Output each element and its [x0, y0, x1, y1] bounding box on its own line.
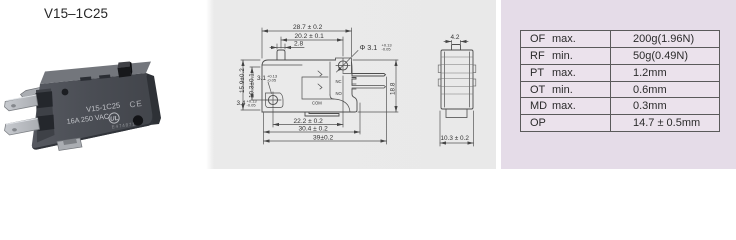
molding slot lower: [37, 115, 54, 131]
arrowheads 30.4: [264, 130, 361, 133]
svg-text:3.4: 3.4: [237, 100, 246, 107]
extension line body right top: [351, 28, 353, 56]
mounting hole top-right: [338, 61, 347, 70]
svg-text:3.1: 3.1: [257, 75, 266, 82]
svg-text:-0.05: -0.05: [247, 103, 257, 108]
terminal blade hidden: [21, 87, 44, 99]
extension line plunger center: [280, 37, 282, 48]
dim line 22.2: [273, 124, 343, 126]
pink table panel: [501, 0, 736, 169]
internal cavity: [302, 77, 334, 99]
bottom COM terminal: [305, 112, 339, 116]
mounting hole dot right: [133, 115, 143, 125]
arrowhead leader 3.1: [338, 67, 343, 71]
leader dia 3.1: [337, 51, 359, 73]
svg-text:28.7 ± 0.2: 28.7 ± 0.2: [293, 24, 323, 31]
arrowheads 10.3 left: [250, 67, 253, 100]
arrowheads 15.9: [241, 60, 244, 110]
end view tab right 1: [473, 65, 476, 73]
svg-text:15.9±0.2: 15.9±0.2: [239, 68, 246, 93]
title V15-1C25: [44, 6, 108, 21]
svg-text:20.2 ± 0.1: 20.2 ± 0.1: [295, 33, 325, 40]
body bottom shade: [32, 115, 153, 150]
dim line 28.7: [262, 30, 352, 32]
svg-text:UL: UL: [110, 115, 119, 123]
end view dim 10.3 extensions: [440, 111, 474, 146]
terminal right 2: [352, 84, 386, 89]
svg-text:COM: COM: [312, 101, 322, 106]
marking UL logo: [108, 112, 119, 123]
arrowheads 39: [264, 139, 387, 142]
mounting hole dot left: [62, 89, 69, 96]
extension lines plunger edges: [277, 44, 285, 49]
extension line 30.4 right: [359, 103, 361, 134]
svg-text:10.3 ± 0.2: 10.3 ± 0.2: [441, 135, 470, 142]
plunger side view: [277, 50, 285, 60]
extension line body left down: [263, 113, 265, 144]
contact mark NO: [318, 84, 322, 89]
technical drawing: [236, 0, 500, 172]
arrowheads 20.2: [281, 38, 343, 41]
extension lines 18.8: [353, 60, 398, 112]
mounting hole bottom-left: [268, 95, 277, 104]
top slot 2: [99, 75, 111, 79]
svg-text:39±0.2: 39±0.2: [313, 135, 333, 142]
svg-text:18.8: 18.8: [390, 82, 397, 95]
end view inner walls: [445, 52, 470, 107]
internal bottom-right curve: [330, 95, 350, 112]
internal divider: [329, 62, 331, 95]
svg-text:22.2 ± 0.2: 22.2 ± 0.2: [294, 118, 324, 125]
svg-text:NC: NC: [336, 79, 342, 84]
extension line hole TR down: [342, 76, 344, 127]
switch right side face: [146, 73, 161, 125]
svg-text:30.4 ± 0.2: 30.4 ± 0.2: [299, 126, 329, 133]
leader 3.1 hole: [268, 82, 272, 94]
svg-text:-0.05: -0.05: [267, 78, 277, 83]
end view dim 4.2 line: [444, 41, 468, 43]
extension line terminal tip: [386, 77, 388, 144]
molding slot upper: [36, 91, 53, 108]
arrowheads 28.7: [262, 29, 352, 32]
svg-text:NO: NO: [336, 91, 343, 96]
arrowheads 2.8: [271, 46, 291, 49]
contact mark NC: [318, 71, 322, 76]
svg-text:10.3±0.1: 10.3±0.1: [249, 73, 256, 98]
svg-text:4.2: 4.2: [451, 34, 460, 41]
arrowheads 4.2: [446, 40, 467, 43]
plunger button front: [118, 67, 132, 78]
svg-text:CE: CE: [129, 99, 143, 110]
end view tab left 1: [438, 65, 441, 73]
end view tab left 2: [438, 79, 441, 86]
end view slots: [441, 57, 473, 94]
terminal right 1: [352, 74, 386, 80]
terminal blade top: [5, 95, 38, 111]
extension lines left dims: [241, 60, 267, 110]
switch body front face: [32, 73, 153, 150]
plunger button top: [118, 62, 131, 69]
top slot 1: [80, 77, 92, 82]
svg-text:Φ 3.1: Φ 3.1: [360, 43, 378, 52]
crosshair hole bottom-left: [265, 92, 281, 108]
end view dim 10.3 line: [440, 142, 474, 144]
side view body outline: [262, 60, 357, 112]
end view dim 4.2 extensions: [452, 41, 461, 45]
svg-text:-0.05: -0.05: [382, 47, 392, 52]
dim line 2.8: [270, 47, 304, 49]
dim line 15.9: [242, 60, 244, 110]
arrowheads 10.3 end: [440, 141, 474, 144]
extension line hole TR: [342, 37, 344, 56]
end view plunger: [452, 45, 461, 51]
bottom common terminal: [57, 138, 82, 151]
spec table: [520, 30, 720, 132]
grey drawing panel: [206, 0, 496, 169]
end view bottom protrusion: [446, 109, 467, 118]
plunger button side: [130, 62, 133, 77]
end view tab right 2: [473, 79, 476, 86]
terminal molding recess: [36, 89, 55, 143]
dim line 10.3 left: [251, 67, 253, 100]
dim line 18.8: [395, 60, 397, 112]
crosshair hole top-right: [336, 59, 350, 73]
dim line 30.4: [264, 131, 361, 133]
side view inner top line: [262, 64, 302, 66]
terminal blade lower: [5, 118, 40, 135]
switch photo: [0, 40, 206, 172]
dim line 20.2: [281, 39, 343, 41]
extension line hole BL down: [272, 109, 274, 127]
arrowheads 18.8: [394, 60, 397, 112]
arrowheads 22.2: [273, 123, 343, 126]
svg-text:2.8: 2.8: [294, 41, 303, 48]
end view body: [441, 50, 473, 109]
boss square top-right: [336, 58, 352, 74]
dim line 39: [264, 140, 387, 142]
switch top face: [40, 62, 151, 85]
extension line body left top: [261, 28, 263, 58]
